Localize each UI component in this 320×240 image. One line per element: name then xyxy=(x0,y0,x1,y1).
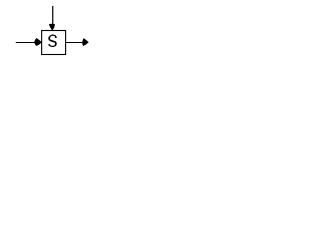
label S (hand-drawn glyph) xyxy=(49,35,56,46)
wire left input xyxy=(16,42,36,44)
background xyxy=(0,0,105,56)
wire top input xyxy=(52,6,54,25)
arrowhead top (down into box) xyxy=(49,24,55,31)
wire right output xyxy=(66,42,84,44)
arrowhead right (output) xyxy=(82,38,88,46)
arrowhead left (into box) xyxy=(34,38,41,46)
block S (system box) xyxy=(42,31,66,55)
